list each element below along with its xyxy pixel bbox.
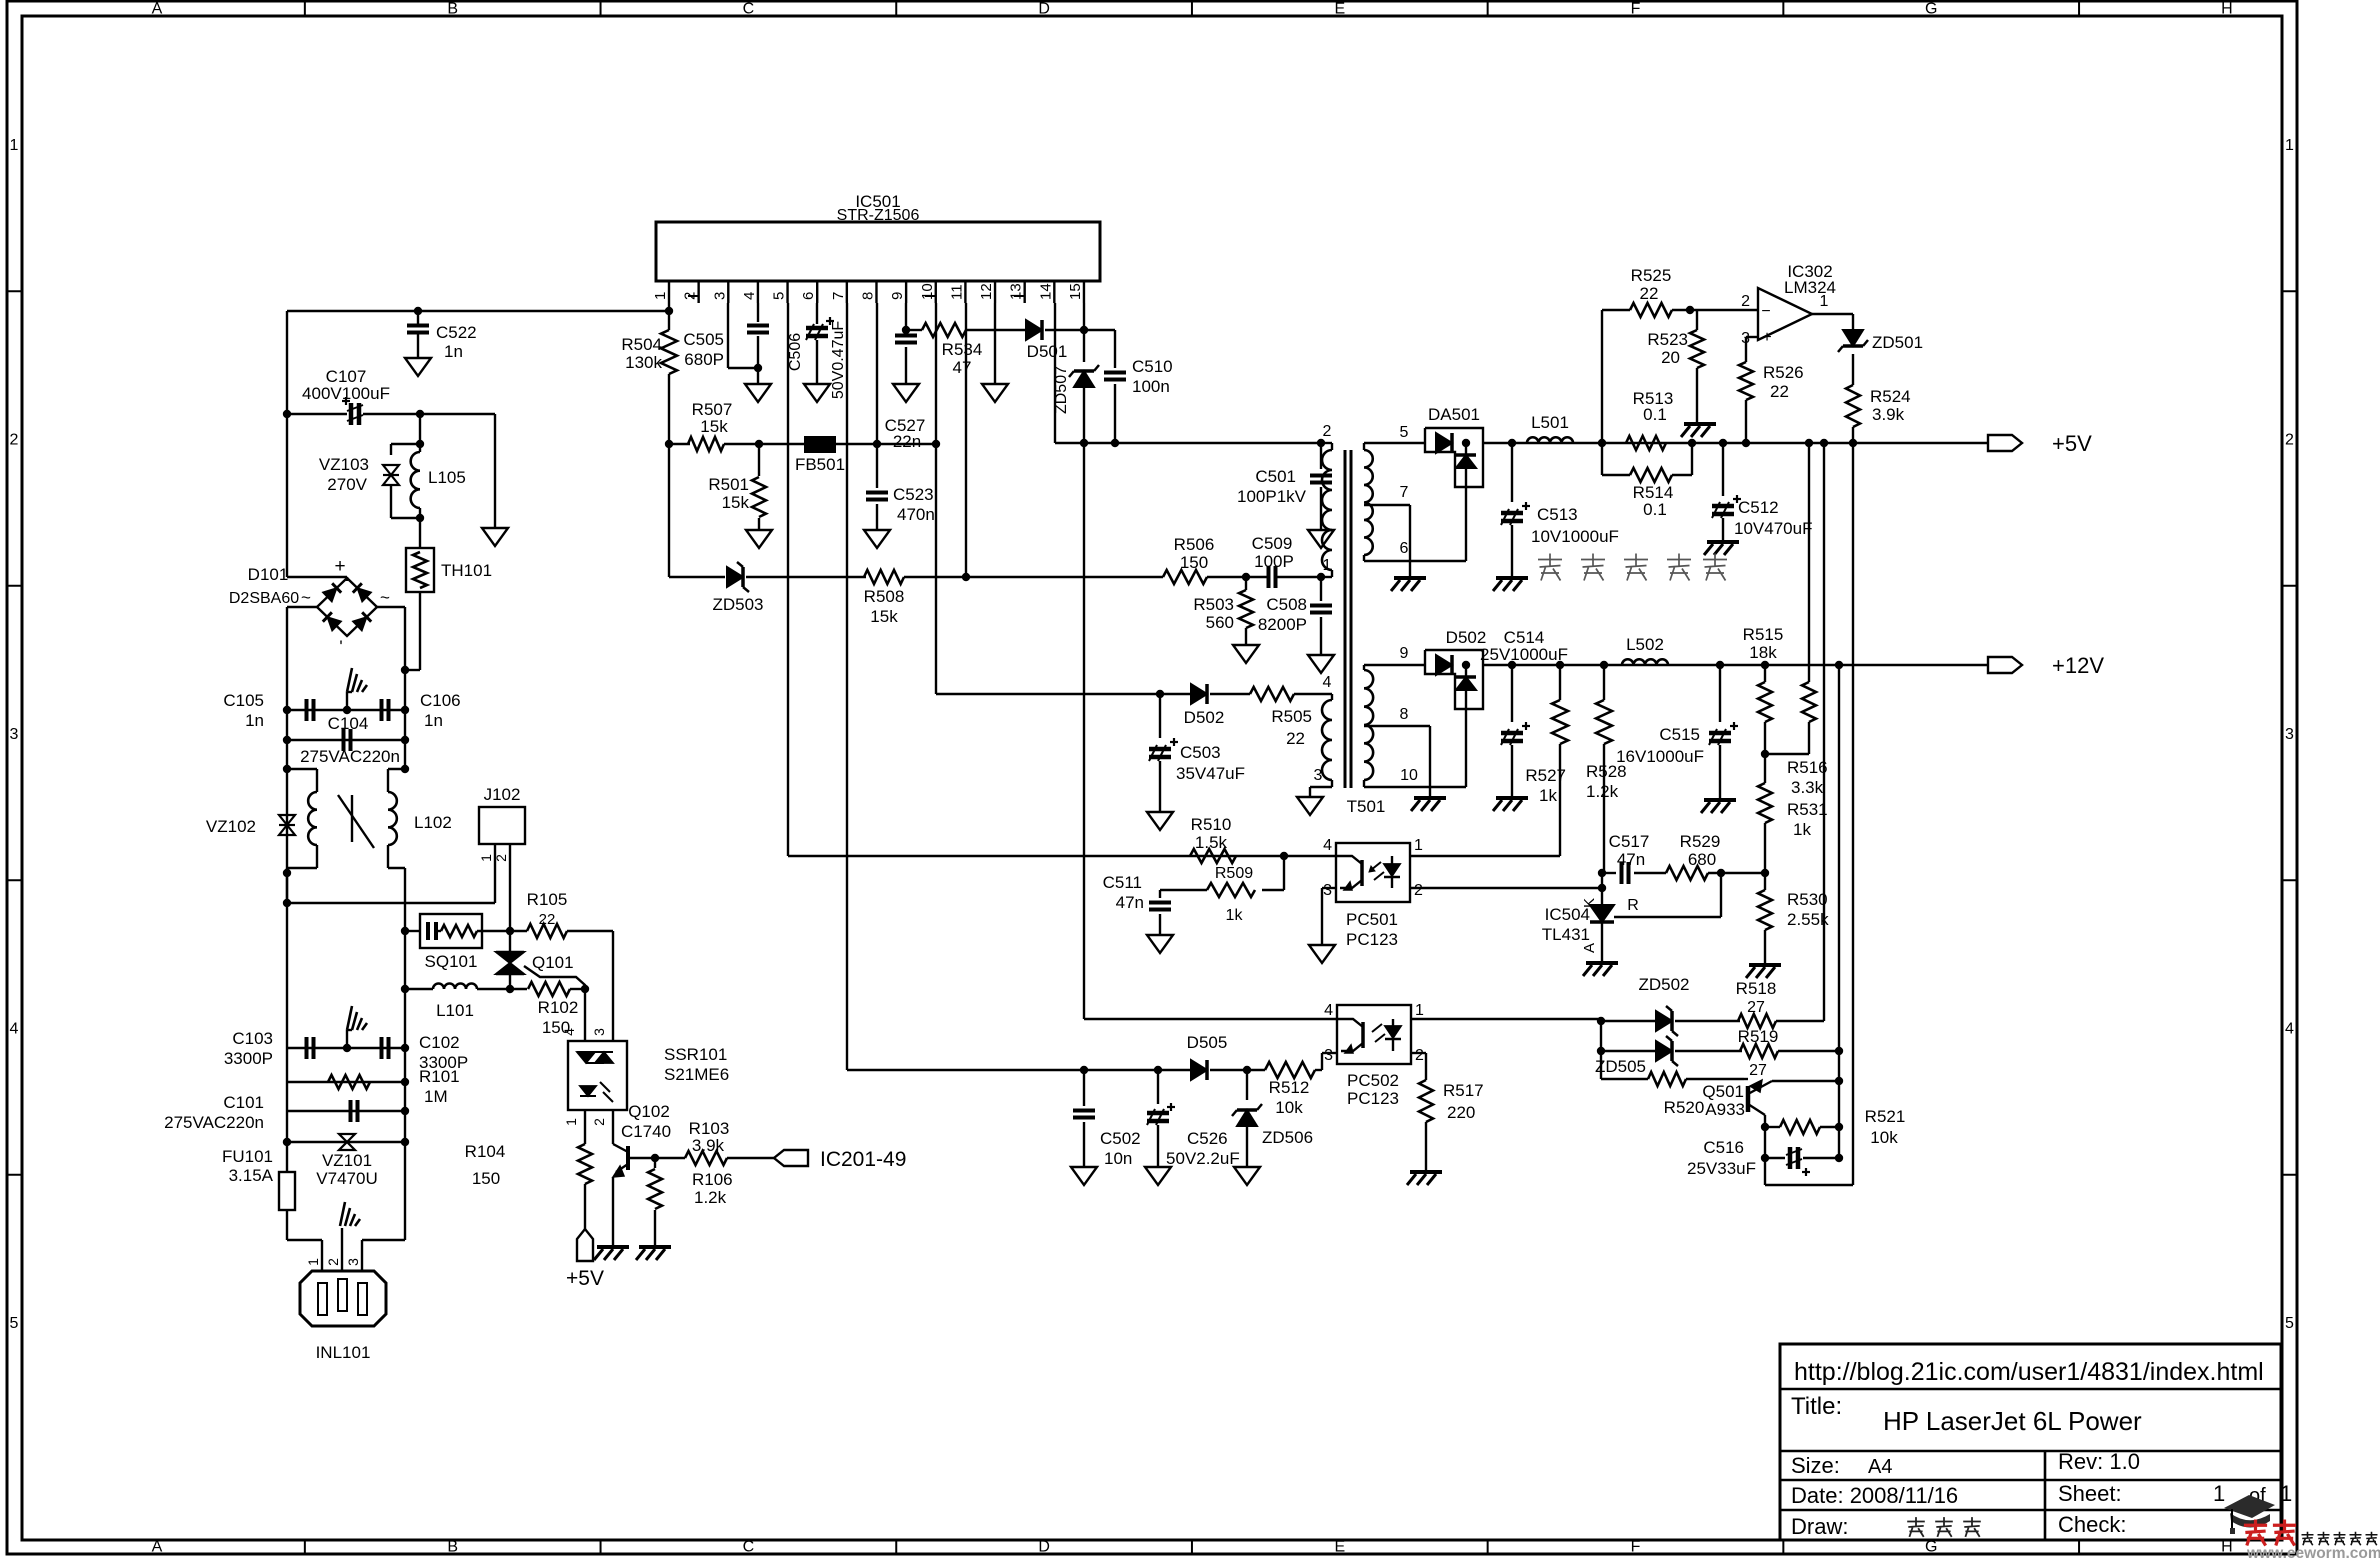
+12V rail (1483, 664, 1988, 666)
svg-text:275VAC220n: 275VAC220n (300, 747, 400, 766)
svg-text:D2SBA60: D2SBA60 (229, 590, 299, 607)
svg-text:1k: 1k (1539, 786, 1557, 805)
svg-text:B: B (447, 1539, 458, 1556)
svg-text:Title:: Title: (1791, 1393, 1842, 1420)
svg-text:C505: C505 (683, 330, 724, 349)
svg-text:DA501: DA501 (1428, 405, 1480, 424)
svg-text:1: 1 (1414, 837, 1423, 854)
resistor R519 27 (1740, 1044, 1778, 1058)
svg-text:+: + (334, 556, 345, 577)
title block (1780, 1344, 2281, 1540)
svg-text:VZ103: VZ103 (319, 455, 369, 474)
Q501 collector bottom rail (1765, 1184, 1853, 1186)
connector J102 (479, 807, 525, 844)
svg-text:ZD501: ZD501 (1872, 333, 1923, 352)
svg-text:R101: R101 (419, 1067, 460, 1086)
svg-text:2: 2 (493, 854, 509, 862)
svg-text:R527: R527 (1525, 766, 1566, 785)
svg-text:C: C (743, 1539, 755, 1556)
svg-text:IC504: IC504 (1545, 905, 1590, 924)
svg-text:C502: C502 (1100, 1129, 1141, 1148)
svg-text:10: 10 (919, 283, 936, 300)
inductor L502 (1622, 659, 1668, 665)
wire pin9 capacitor to ground (905, 303, 907, 330)
svg-text:R516: R516 (1787, 758, 1828, 777)
inductor L501 (1527, 437, 1573, 443)
svg-text:R523: R523 (1647, 330, 1688, 349)
svg-text:4: 4 (561, 1028, 577, 1036)
capacitor C107 400V100uF (287, 413, 347, 415)
svg-text:Q102: Q102 (628, 1102, 670, 1121)
svg-text:R106: R106 (692, 1170, 733, 1189)
svg-text:ZD505: ZD505 (1595, 1057, 1646, 1076)
svg-text:R503: R503 (1193, 595, 1234, 614)
svg-text:L102: L102 (414, 813, 452, 832)
resistor R510 1.5k (1190, 849, 1236, 863)
wire pin7 long vertical (846, 303, 848, 1070)
svg-text:100P: 100P (1254, 552, 1294, 571)
dual diode DA501 (1425, 428, 1483, 487)
svg-text:10V470uF: 10V470uF (1734, 519, 1812, 538)
capacitor C517 47n (1602, 872, 1616, 874)
wire Q101 gate to SSR pin4 node (524, 966, 585, 990)
wire pin11 to R508 rail (965, 303, 967, 577)
svg-text:9: 9 (1400, 645, 1409, 662)
svg-text:1: 1 (478, 854, 494, 862)
svg-text:Q101: Q101 (532, 953, 574, 972)
earth ground above C103 (343, 1044, 351, 1052)
svg-text:ZD507: ZD507 (1053, 366, 1070, 414)
resistor R517 220 (1419, 1080, 1433, 1122)
svg-text:6: 6 (1400, 540, 1409, 557)
svg-text:SQ101: SQ101 (425, 952, 478, 971)
AC inlet INL101 (300, 1271, 386, 1326)
IC501 pin stubs and numbers (668, 281, 670, 303)
resistor R516 3.3k (1802, 682, 1816, 722)
wire R524 node long vertical to Q501 collector rail (1852, 443, 1854, 1185)
PC501 pin3 to ground (1322, 887, 1336, 889)
svg-text:L105: L105 (428, 468, 466, 487)
resistor R509 1k (1283, 856, 1285, 890)
svg-text:C106: C106 (420, 691, 461, 710)
svg-text:4: 4 (1324, 1002, 1333, 1019)
capacitor C515 16V1000uF (1716, 661, 1724, 669)
svg-text:HP LaserJet 6L Power: HP LaserJet 6L Power (1883, 1406, 2142, 1436)
wire pin14 down to transformer (1054, 303, 1056, 443)
svg-text:2: 2 (1415, 1047, 1424, 1064)
svg-text:Size:: Size: (1791, 1453, 1840, 1478)
resistor R518 27 (1738, 1014, 1776, 1028)
zener rail ZD503 R508 (668, 444, 670, 577)
svg-text:1: 1 (2280, 1481, 2292, 1506)
svg-text:~: ~ (380, 588, 390, 607)
svg-text:R510: R510 (1191, 815, 1232, 834)
PC502 pin2 to R517 (1411, 1052, 1426, 1054)
capacitor C101 275VAC220n (287, 1110, 405, 1112)
zener ZD502 (1601, 1020, 1655, 1022)
svg-text:−: − (1761, 303, 1770, 320)
svg-text:4: 4 (2285, 1021, 2294, 1038)
svg-text:C506: C506 (787, 333, 804, 371)
bridge rectifier D101 D2SBA60 (317, 578, 377, 636)
diode D505 (1191, 1060, 1207, 1080)
eeworm watermark logo (2224, 1495, 2275, 1518)
svg-text:L502: L502 (1626, 635, 1664, 654)
svg-text:F: F (1631, 1539, 1641, 1556)
svg-text:5: 5 (1400, 424, 1409, 441)
svg-text:3: 3 (1324, 1047, 1333, 1064)
svg-text:35V47uF: 35V47uF (1176, 764, 1245, 783)
svg-text:1: 1 (563, 1118, 579, 1126)
svg-text:15: 15 (1067, 283, 1084, 300)
base line to R103 and R106 (628, 1157, 655, 1159)
svg-text:R501: R501 (708, 475, 749, 494)
svg-text:Date: 2008/11/16: Date: 2008/11/16 (1791, 1483, 1958, 1508)
svg-text:+: + (1762, 329, 1771, 346)
svg-text:R520: R520 (1664, 1098, 1705, 1117)
svg-text:R529: R529 (1680, 832, 1721, 851)
capacitor C522 (417, 311, 419, 325)
svg-text:3.3k: 3.3k (1791, 778, 1824, 797)
svg-text:3: 3 (591, 1028, 607, 1036)
solid state relay SSR101 S21ME6 (568, 1041, 627, 1110)
svg-text:E: E (1334, 1, 1345, 18)
PC502 pin4 line to feedback (1084, 1018, 1337, 1020)
svg-text:1n: 1n (245, 711, 264, 730)
svg-text:C101: C101 (223, 1093, 264, 1112)
svg-text:C517: C517 (1609, 832, 1650, 851)
svg-text:1k: 1k (1226, 907, 1244, 924)
svg-text:1: 1 (305, 1258, 321, 1266)
svg-text:3: 3 (345, 1258, 361, 1266)
node zeners left (1597, 1017, 1605, 1025)
wire C107 rail to ground (494, 414, 496, 528)
svg-text:150: 150 (472, 1169, 500, 1188)
+5V arrow (1988, 435, 2022, 451)
svg-text:14: 14 (1037, 283, 1054, 300)
svg-text:3300P: 3300P (224, 1049, 273, 1068)
svg-text:D505: D505 (1187, 1033, 1228, 1052)
FB rail R507 FB501 (665, 440, 673, 448)
capacitor C103 3300P (287, 1047, 405, 1049)
svg-text:TH101: TH101 (441, 561, 492, 580)
wire SSR pin1 to R104 (584, 1110, 586, 1122)
svg-text:C104: C104 (328, 714, 369, 733)
svg-text:R512: R512 (1269, 1078, 1310, 1097)
svg-text:H: H (2221, 1, 2233, 18)
svg-text:~: ~ (301, 588, 311, 607)
svg-text:D: D (1038, 1539, 1050, 1556)
svg-text:R509: R509 (1215, 865, 1253, 882)
svg-text:+5V: +5V (566, 1267, 604, 1290)
resistor R514 0.1 (1602, 474, 1630, 476)
svg-text:10k: 10k (1275, 1098, 1303, 1117)
svg-text:L101: L101 (436, 1001, 474, 1020)
svg-text:16V1000uF: 16V1000uF (1616, 747, 1704, 766)
svg-text:L501: L501 (1531, 413, 1569, 432)
T501 secondary tap pin7 (1364, 504, 1410, 506)
resistor R102 150 (510, 988, 527, 990)
resistor R529 680 (1666, 866, 1708, 880)
svg-text:D502: D502 (1184, 708, 1225, 727)
resistor R507 15k (688, 437, 724, 451)
svg-text:10n: 10n (1104, 1149, 1132, 1168)
+12V tap down to R519 Q501 (1835, 661, 1843, 669)
svg-text:R504: R504 (621, 335, 662, 354)
svg-text:2: 2 (591, 1118, 607, 1126)
triac Q101 (509, 931, 511, 952)
PC502 pin1 line to zeners (1411, 1018, 1601, 1020)
svg-text:C512: C512 (1738, 498, 1779, 517)
svg-text:1n: 1n (444, 342, 463, 361)
svg-text:13: 13 (1008, 283, 1025, 300)
svg-text:C102: C102 (419, 1033, 460, 1052)
capacitor C512 10V470uF (1719, 439, 1727, 447)
capacitor C104 275VAC220n (287, 739, 405, 741)
svg-text:4: 4 (1323, 674, 1332, 691)
wire left vertical from top rail to bridge (286, 311, 288, 414)
svg-text:1: 1 (652, 292, 669, 300)
svg-text:5: 5 (2285, 1315, 2294, 1332)
+5V arrow at R104 (577, 1229, 593, 1261)
opamp output and zener ZD501 (1812, 313, 1853, 315)
svg-text:R105: R105 (527, 890, 568, 909)
fuse FU101 3.15A (286, 1142, 288, 1172)
resistor R530 2.55k (1764, 873, 1766, 890)
svg-text:R519: R519 (1738, 1027, 1779, 1046)
svg-text:C105: C105 (223, 691, 264, 710)
wire pin3 to C505 (727, 303, 729, 368)
resistor R505 22 (1250, 687, 1294, 701)
svg-text:1: 1 (10, 137, 19, 154)
PC501 pin1 to R527 (1410, 855, 1560, 857)
svg-text:C510: C510 (1132, 357, 1173, 376)
svg-text:VZ102: VZ102 (206, 817, 256, 836)
svg-text:680: 680 (1688, 850, 1716, 869)
svg-text:C509: C509 (1252, 534, 1293, 553)
svg-text:INL101: INL101 (316, 1343, 371, 1362)
diode D502 small (1191, 684, 1207, 704)
svg-text:C526: C526 (1187, 1129, 1228, 1148)
wire SSR pin2 down (612, 1110, 614, 1138)
svg-text:G: G (1925, 1, 1937, 18)
svg-text:PC123: PC123 (1346, 930, 1398, 949)
resistor R524 3.9k (1846, 385, 1860, 427)
svg-text:10V1000uF: 10V1000uF (1531, 527, 1619, 546)
svg-text:C515: C515 (1659, 725, 1700, 744)
wire pin15 to ZD507 (1083, 303, 1085, 330)
svg-text:Q501: Q501 (1702, 1082, 1744, 1101)
T501 secondary winding pins 5-7-6 (1364, 442, 1399, 444)
resistor R101 1M (287, 1081, 405, 1083)
common-mode choke L102 (287, 768, 317, 770)
svg-text:C523: C523 (893, 485, 934, 504)
svg-text:ZD502: ZD502 (1638, 975, 1689, 994)
svg-text:C516: C516 (1703, 1138, 1744, 1157)
wires to inlet INL101 (287, 1239, 322, 1241)
+5V rail from DA501 (1483, 442, 1988, 444)
svg-text:R534: R534 (942, 340, 983, 359)
T501 secondary pin6 (1363, 555, 1365, 561)
svg-text:2: 2 (325, 1258, 341, 1266)
svg-text:12: 12 (978, 283, 995, 300)
optocoupler PC502 PC123 (1337, 1005, 1411, 1064)
T501 lower primary pins 4-3 (1331, 694, 1333, 700)
svg-text:Rev: 1.0: Rev: 1.0 (2058, 1449, 2140, 1474)
svg-text:TL431: TL431 (1542, 925, 1590, 944)
svg-text:15k: 15k (722, 493, 750, 512)
svg-text:10: 10 (1400, 767, 1418, 784)
capacitor C508 8200P (1320, 577, 1322, 601)
svg-text:25V33uF: 25V33uF (1687, 1159, 1756, 1178)
svg-text:2.55k: 2.55k (1787, 910, 1829, 929)
svg-text:680P: 680P (684, 350, 724, 369)
svg-text:ZD506: ZD506 (1262, 1128, 1313, 1147)
svg-text:PC123: PC123 (1347, 1089, 1399, 1108)
TL431 ref wire (1614, 916, 1721, 918)
svg-text:400V100uF: 400V100uF (302, 384, 390, 403)
capacitor C509 100P (1246, 576, 1267, 578)
wire pin8 to FB rail (876, 303, 878, 444)
svg-text:F: F (1631, 1, 1641, 18)
svg-text:20: 20 (1661, 348, 1680, 367)
svg-text:1.2k: 1.2k (1586, 782, 1619, 801)
svg-text:R525: R525 (1631, 266, 1672, 285)
svg-text:http://blog.21ic.com/user1/483: http://blog.21ic.com/user1/4831/index.ht… (1794, 1358, 2264, 1386)
svg-text:3.9k: 3.9k (1872, 405, 1905, 424)
svg-text:FU101: FU101 (222, 1147, 273, 1166)
svg-text:R531: R531 (1787, 800, 1828, 819)
svg-text:22: 22 (539, 911, 556, 928)
FB rail to corner down (877, 443, 936, 445)
wire bridge right vertex down (377, 606, 405, 608)
optocoupler PC501 PC123 (1336, 843, 1410, 902)
svg-text:ZD503: ZD503 (712, 595, 763, 614)
svg-text:220: 220 (1447, 1103, 1475, 1122)
svg-text:0.1: 0.1 (1643, 500, 1667, 519)
svg-text:47: 47 (953, 358, 972, 377)
svg-text:R518: R518 (1736, 979, 1777, 998)
line D502 R505 to transformer pin4 (936, 693, 1191, 695)
svg-text:T501: T501 (1347, 797, 1386, 816)
+12V arrow (1988, 657, 2022, 673)
wire R102 node to SSR101 pin4 (584, 989, 586, 1041)
svg-text:J102: J102 (484, 785, 521, 804)
svg-text:18k: 18k (1749, 643, 1777, 662)
line R510 from pin5 (788, 855, 1336, 857)
svg-text:STR-Z1506: STR-Z1506 (837, 207, 920, 224)
svg-text:4: 4 (741, 292, 758, 300)
capacitor C106 1n (380, 699, 384, 721)
svg-text:11: 11 (948, 284, 965, 300)
svg-text:22n: 22n (893, 432, 921, 451)
svg-text:8200P: 8200P (1258, 615, 1307, 634)
svg-text:FB501: FB501 (795, 455, 845, 474)
svg-text:D101: D101 (248, 565, 289, 584)
svg-text:D501: D501 (1027, 342, 1068, 361)
resistor R105 22 (510, 930, 527, 932)
svg-text:560: 560 (1206, 613, 1234, 632)
svg-text:3.15A: 3.15A (229, 1166, 274, 1185)
zener ZD506 (1246, 1070, 1248, 1100)
svg-text:R508: R508 (864, 587, 905, 606)
zener ZD507 (1083, 330, 1085, 362)
rail to transformer pin1 (966, 576, 1163, 578)
resistor R528 1.2k (1600, 661, 1608, 669)
svg-text:R530: R530 (1787, 890, 1828, 909)
svg-text:5: 5 (771, 292, 788, 300)
svg-text:25V1000uF: 25V1000uF (1480, 645, 1568, 664)
svg-text:1: 1 (1415, 1002, 1424, 1019)
svg-text:100n: 100n (1132, 377, 1170, 396)
svg-text:150: 150 (1180, 553, 1208, 572)
ground at Q102 emitter (597, 1245, 629, 1249)
svg-text:C508: C508 (1266, 595, 1307, 614)
capacitor C511 47n (1159, 890, 1161, 898)
svg-text:PC501: PC501 (1346, 910, 1398, 929)
svg-text:0.1: 0.1 (1643, 405, 1667, 424)
capacitor C105 1n (287, 709, 405, 711)
svg-text:R505: R505 (1271, 707, 1312, 726)
wire to J102 pin1 (287, 902, 495, 904)
thermistor TH101 (419, 518, 421, 548)
resistor R512 10k (1265, 1062, 1315, 1078)
capacitor C503 35V47uF (1159, 694, 1161, 738)
svg-text:27: 27 (1749, 1062, 1767, 1079)
capacitor C505 680P (757, 303, 759, 322)
svg-text:1.2k: 1.2k (694, 1188, 727, 1207)
svg-text:SSR101: SSR101 (664, 1045, 727, 1064)
svg-text:15k: 15k (870, 607, 898, 626)
resistor R503 560 (1245, 577, 1247, 590)
dual diode D502 (1425, 650, 1483, 709)
varistor VZ102 (286, 868, 288, 903)
svg-text:R: R (1627, 897, 1639, 914)
PC501 pin2 to TL431 (1410, 887, 1602, 889)
resistor R103 3.9k (655, 1157, 685, 1159)
connector arrow IC201-49 (774, 1150, 808, 1166)
svg-text:15k: 15k (700, 417, 728, 436)
zener ZD505 (1601, 1050, 1655, 1052)
resistor R104 150 (584, 1122, 586, 1144)
wire +5V taps to R516 R518 (1805, 439, 1813, 447)
svg-text:2: 2 (1741, 293, 1750, 310)
svg-text:C511: C511 (1103, 873, 1142, 892)
svg-text:9: 9 (889, 292, 906, 300)
svg-text:3: 3 (2285, 726, 2294, 743)
svg-text:50V0.47uF: 50V0.47uF (830, 321, 847, 400)
T501 secondary2 pins 9-8-10 (1364, 664, 1399, 666)
svg-text:3: 3 (1314, 767, 1323, 784)
svg-text:R524: R524 (1870, 387, 1911, 406)
svg-text:+5V: +5V (2052, 431, 2092, 456)
svg-text:C522: C522 (436, 323, 477, 342)
svg-text:C501: C501 (1255, 467, 1296, 486)
svg-text:100P1kV: 100P1kV (1237, 487, 1307, 506)
svg-text:10k: 10k (1870, 1128, 1898, 1147)
capacitor C510 100n (1084, 329, 1115, 331)
svg-text:27: 27 (1747, 999, 1765, 1016)
capacitor C501 100P1kV (1320, 443, 1322, 469)
spark gap SQ101 (405, 930, 420, 932)
svg-text:6: 6 (800, 292, 817, 300)
svg-text:1: 1 (1820, 293, 1829, 310)
wire right rail below L102 (404, 868, 406, 1142)
TL431 IC504 node (1598, 869, 1606, 877)
svg-text:1k: 1k (1793, 820, 1811, 839)
svg-text:C1740: C1740 (621, 1122, 671, 1141)
svg-text:2: 2 (10, 432, 19, 449)
